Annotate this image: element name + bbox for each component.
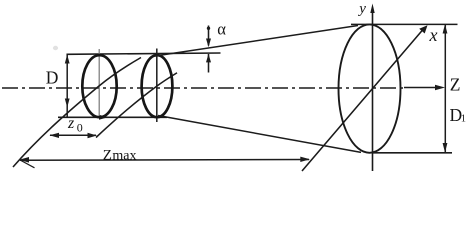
D1 dimension line: [444, 25, 446, 152]
D dimension line: [66, 54, 68, 117]
faint scan smudge: [53, 46, 58, 50]
Zmax dimension line: [20, 159, 309, 162]
x axis (perspective diagonal): [302, 30, 423, 172]
arrowhead D top: [65, 55, 70, 64]
waist centre line (vertical, left ellipse): [98, 49, 100, 117]
svg-text:Z: Z: [103, 148, 112, 164]
arrowhead Zmax left: [19, 157, 29, 163]
optical axis Z (dash-dot centre line): [2, 87, 404, 89]
bottom tangent line of small ellipses: [58, 116, 167, 118]
optical axis solid arrow shaft: [404, 87, 436, 89]
alpha line top blob: [207, 27, 210, 30]
beam top edge (diverging): [155, 26, 358, 57]
intermediate ellipse centre line (vertical): [156, 49, 158, 123]
svg-text:D: D: [46, 67, 59, 87]
arrowhead z0 left: [49, 133, 59, 138]
bottom tangent line of far-field ellipse: [372, 152, 452, 154]
arrowhead D bottom: [65, 99, 70, 108]
svg-text:y: y: [357, 1, 366, 17]
intermediate ellipse: [142, 55, 173, 117]
svg-text:z: z: [67, 115, 75, 132]
Zmax left arrow lower barb: [20, 160, 35, 168]
arrowhead z0 right: [88, 133, 98, 138]
perspective diagonal through waist ellipse: [13, 58, 141, 168]
arrowhead alpha up: [206, 54, 211, 63]
alpha dimension upper line: [208, 26, 210, 46]
top tangent line of small ellipses: [67, 53, 221, 54]
arrowhead x axis: [419, 25, 427, 33]
svg-text:α: α: [217, 20, 226, 39]
small arrow mark on bottom tangent: [99, 115, 108, 120]
perspective diagonal through intermediate ellipse: [96, 73, 177, 138]
svg-text:0: 0: [77, 121, 83, 135]
arrowhead alpha down: [206, 39, 211, 48]
z0 dimension line: [50, 134, 96, 136]
top tangent line of far-field ellipse: [351, 23, 458, 25]
beam waist ellipse: [82, 55, 116, 117]
arrowhead D1 bottom: [443, 143, 448, 153]
svg-text:max: max: [112, 149, 136, 164]
arrowhead Z axis: [435, 85, 445, 90]
svg-text:Z: Z: [450, 75, 461, 95]
svg-text:x: x: [429, 25, 438, 45]
arrowhead Zmax right: [300, 157, 310, 162]
far-field ellipse (large): [339, 24, 401, 152]
alpha dimension lower line: [208, 54, 210, 73]
beam bottom edge (diverging): [158, 116, 361, 153]
y axis vertical line: [372, 12, 374, 171]
arrowhead y axis: [370, 4, 374, 14]
svg-text:1: 1: [461, 114, 466, 125]
arrowhead D1 top: [443, 24, 448, 34]
